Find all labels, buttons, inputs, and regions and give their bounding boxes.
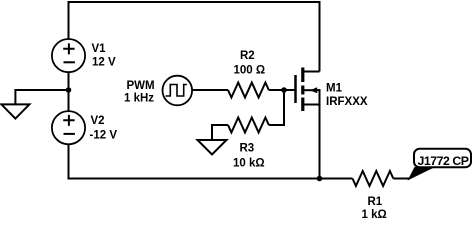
- wire node B to gate: [284, 89, 295, 91]
- wire R1 to flag: [393, 178, 409, 180]
- net flag tail: [408, 167, 436, 181]
- voltage source V2: [52, 111, 85, 144]
- net flag J1772 CP: [414, 149, 471, 168]
- resistor R2: [228, 83, 269, 98]
- node B junction dot: [281, 87, 287, 93]
- svg-text:-12 V: -12 V: [90, 130, 118, 142]
- resistor R1: [353, 171, 394, 186]
- ground GND1: [1, 104, 29, 118]
- transistor M1: [296, 68, 320, 112]
- svg-text:1 kΩ: 1 kΩ: [362, 209, 387, 219]
- wire node A to ground: [15, 90, 69, 104]
- wire R2 to node B: [269, 89, 284, 91]
- wire node C to R1: [320, 178, 353, 180]
- channel bar body segment: [301, 86, 304, 95]
- svg-text:V2: V2: [91, 115, 105, 127]
- wire V1 to node A: [68, 72, 70, 90]
- svg-text:R1: R1: [368, 196, 383, 208]
- voltage source V1: [52, 39, 85, 72]
- channel bar source segment: [301, 98, 304, 112]
- svg-text:R2: R2: [240, 50, 255, 62]
- wire R3 to ground: [212, 125, 228, 140]
- channel bar drain segment: [301, 68, 304, 83]
- svg-text:PWM: PWM: [127, 80, 155, 92]
- node C junction dot: [317, 176, 323, 182]
- source stub: [303, 104, 320, 106]
- ground GND2: [198, 140, 227, 155]
- svg-text:12 V: 12 V: [92, 57, 116, 69]
- resistor R3: [228, 118, 269, 133]
- node A junction dot: [66, 87, 72, 93]
- wire source to bottom rail: [319, 89, 321, 179]
- wire PWM to R2: [192, 89, 228, 91]
- PWM source V3: [163, 76, 193, 106]
- gate bar: [294, 75, 297, 103]
- svg-text:J1772 CP: J1772 CP: [417, 154, 468, 168]
- svg-text:R3: R3: [240, 143, 255, 155]
- svg-text:IRFXXX: IRFXXX: [326, 96, 368, 108]
- drain stub: [303, 71, 320, 73]
- wire node A to V2: [68, 90, 70, 112]
- svg-text:1 kHz: 1 kHz: [124, 93, 154, 105]
- svg-text:V1: V1: [92, 43, 107, 55]
- svg-text:10 kΩ: 10 kΩ: [233, 158, 265, 170]
- wire node B to R3: [269, 90, 284, 125]
- svg-text:100 Ω: 100 Ω: [234, 65, 266, 77]
- wire V2 to bottom rail: [68, 144, 70, 179]
- wire top rail: [69, 2, 320, 72]
- svg-text:M1: M1: [326, 83, 343, 95]
- wire bottom rail: [69, 178, 320, 179]
- bulk arrow: [304, 89, 320, 91]
